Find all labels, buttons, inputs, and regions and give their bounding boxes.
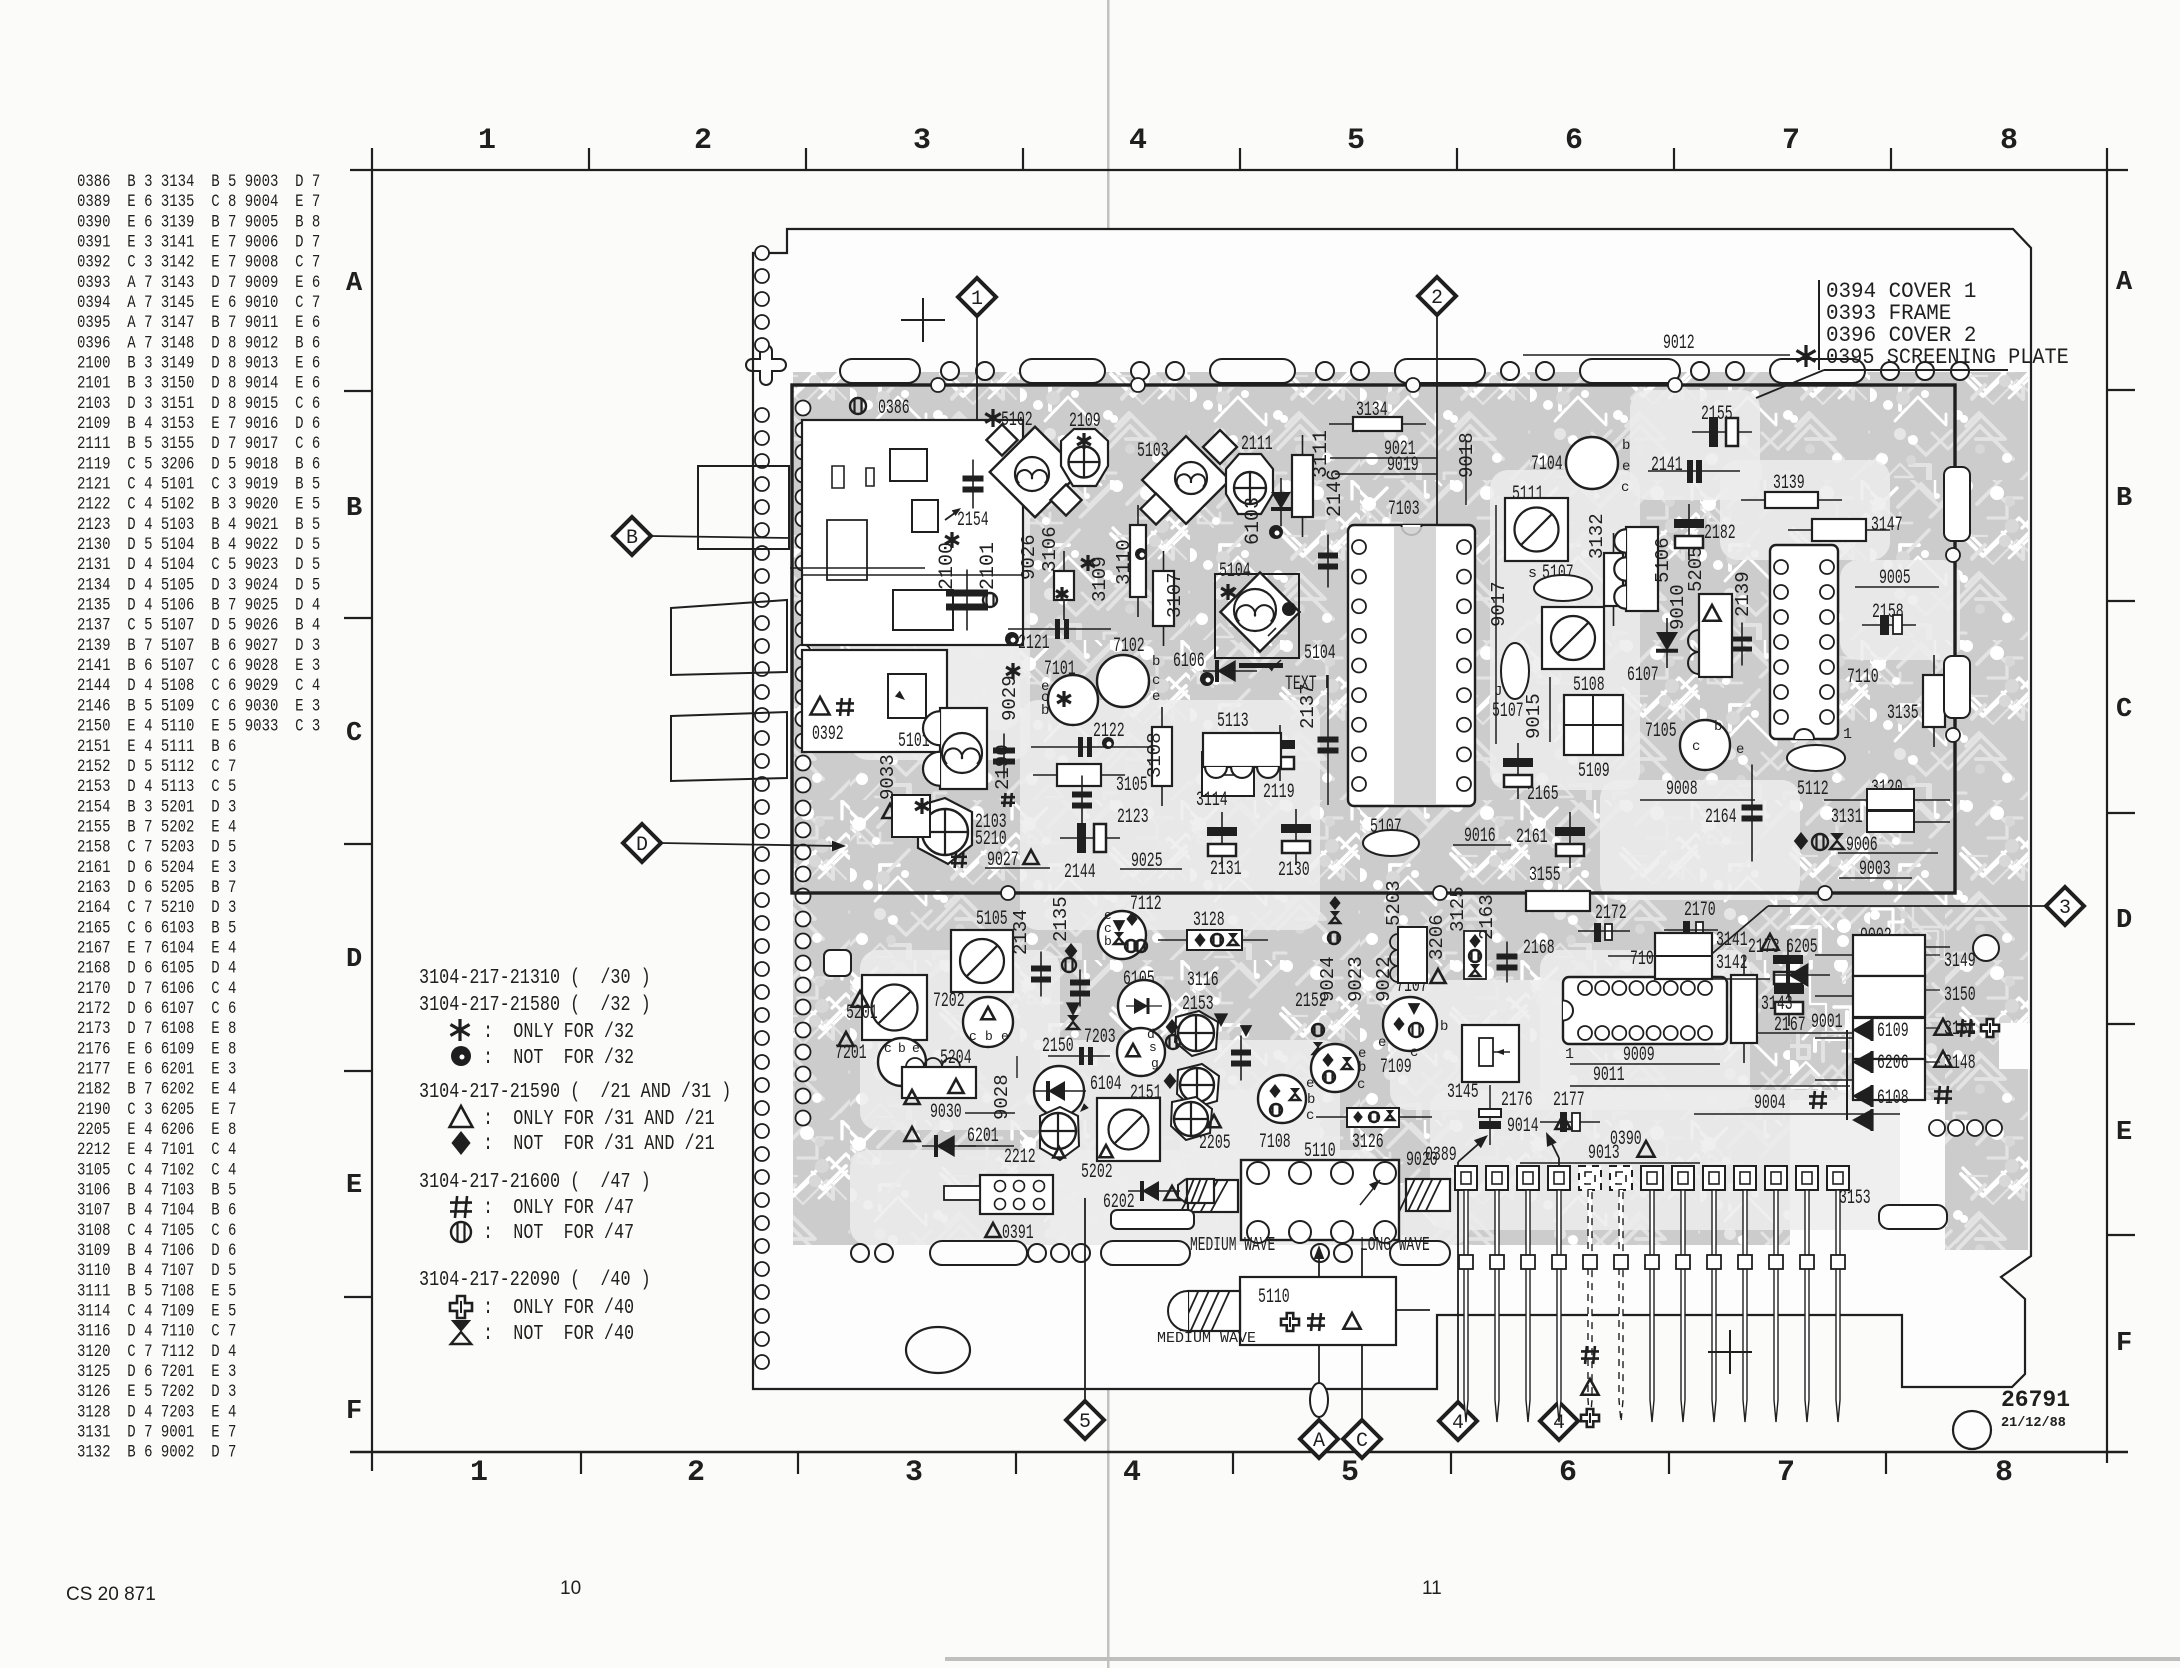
connector tab 2 [671, 600, 787, 675]
svg-text:3142: 3142 [1716, 953, 1748, 975]
svg-text:0395 SCREENING PLATE: 0395 SCREENING PLATE [1826, 345, 2069, 370]
svg-text:8: 8 [2000, 124, 2018, 158]
leader 5 [1084, 1198, 1086, 1401]
svg-text:: NOT FOR /40: : NOT FOR /40 [483, 1321, 634, 1345]
resistor 3107 [1163, 551, 1165, 646]
svg-text:2141: 2141 [1651, 455, 1683, 477]
hatch blocks [1406, 1179, 1450, 1211]
svg-text:3120 C 7 7112 D 4: 3120 C 7 7112 D 4 [77, 1342, 236, 1362]
svg-text:3105 C 4 7102 C 4: 3105 C 4 7102 C 4 [77, 1160, 236, 1180]
svg-text:3109: 3109 [1089, 556, 1111, 602]
svg-text:9018: 9018 [1456, 432, 1478, 478]
svg-text:3109 B 4 7106 D 6: 3109 B 4 7106 D 6 [77, 1241, 236, 1261]
svg-text:3116 D 4 7110 C 7: 3116 D 4 7110 C 7 [77, 1321, 236, 1341]
svg-text:1: 1 [478, 124, 496, 158]
svg-text:F: F [2116, 1329, 2132, 1359]
capacitor 2121 [1005, 632, 1019, 646]
svg-text:e: e [1622, 459, 1630, 475]
svg-text:2101: 2101 [977, 542, 1000, 590]
svg-text:2176: 2176 [1501, 1090, 1533, 1112]
svg-text:F: F [346, 1397, 362, 1427]
IC 7110 [1770, 545, 1838, 739]
svg-text:2151 E 4 5111 B 6: 2151 E 4 5111 B 6 [77, 736, 236, 756]
svg-text:3132 B 6 9002 D 7: 3132 B 6 9002 D 7 [77, 1442, 236, 1462]
svg-text:9004: 9004 [1754, 1093, 1786, 1115]
coil assembly 5102 [991, 409, 994, 427]
svg-text:D: D [2116, 906, 2132, 936]
svg-text:A: A [2116, 268, 2133, 298]
transistor 7109 [1311, 1044, 1359, 1092]
svg-text:3141: 3141 [1716, 930, 1748, 952]
svg-text:2109 B 4 3153 E 7 9016 D 6: 2109 B 4 3153 E 7 9016 D 6 [77, 414, 320, 434]
svg-text:0391: 0391 [1002, 1223, 1034, 1245]
variant legend [419, 965, 731, 1345]
svg-text:3104-217-22090 ( /40 ): 3104-217-22090 ( /40 ) [419, 1267, 651, 1291]
svg-text:: NOT FOR /31 AND /21: : NOT FOR /31 AND /21 [483, 1131, 715, 1155]
svg-text:3110: 3110 [1113, 539, 1135, 585]
bottom edge slots and holes [851, 1244, 869, 1262]
transistor second cbe [963, 997, 1013, 1047]
svg-text:b: b [1714, 719, 1722, 735]
svg-text:c: c [884, 1041, 892, 1056]
svg-text:6103: 6103 [1242, 497, 1265, 545]
svg-text:2119: 2119 [1263, 782, 1295, 804]
svg-text:5202: 5202 [1081, 1162, 1113, 1184]
svg-text:2152 D 5 5112 C 7: 2152 D 5 5112 C 7 [77, 757, 236, 777]
svg-text:5105: 5105 [976, 909, 1008, 931]
svg-text:3105: 3105 [1116, 775, 1148, 797]
svg-text:7105: 7105 [1645, 721, 1677, 743]
svg-text:2146: 2146 [1324, 469, 1347, 517]
svg-text:2: 2 [1431, 287, 1443, 310]
svg-text:6201: 6201 [967, 1126, 999, 1148]
svg-text:3108: 3108 [1144, 732, 1166, 778]
svg-text:b: b [1358, 1060, 1366, 1076]
svg-text:3149: 3149 [1944, 951, 1976, 973]
capacitor near 5110 [1240, 1036, 1242, 1081]
svg-text:2100 B 3 3149 D 8 9013 E 6: 2100 B 3 3149 D 8 9013 E 6 [77, 353, 320, 373]
svg-text:2123: 2123 [1117, 807, 1149, 829]
svg-text:3114: 3114 [1196, 790, 1228, 812]
svg-text:5112: 5112 [1797, 779, 1829, 801]
svg-text:3155: 3155 [1529, 865, 1561, 887]
svg-text:2122 C 4 5102 B 3 9020 E 5: 2122 C 4 5102 B 3 9020 E 5 [77, 494, 320, 514]
rounded rect bottom [1111, 1210, 1194, 1229]
svg-text:0395 A 7 3147 B 7 9011 E 6: 0395 A 7 3147 B 7 9011 E 6 [77, 313, 320, 333]
quad 5109 [1564, 695, 1623, 755]
svg-text:b: b [1440, 1019, 1448, 1035]
svg-text:2144: 2144 [1064, 862, 1096, 884]
svg-text:5107: 5107 [1492, 701, 1524, 723]
svg-text:2164: 2164 [1705, 807, 1737, 829]
svg-text:9015: 9015 [1523, 693, 1545, 739]
svg-text:7112: 7112 [1130, 894, 1162, 916]
parts cross-reference list [77, 172, 320, 1463]
svg-text:3147: 3147 [1871, 515, 1903, 537]
svg-text:b: b [1104, 934, 1112, 949]
svg-text:b: b [1041, 703, 1049, 719]
svg-text:c: c [1152, 673, 1160, 689]
diode 6205 [1761, 934, 1778, 950]
leader C [1361, 1248, 1363, 1420]
svg-text:B: B [2116, 484, 2132, 514]
svg-text:5210: 5210 [975, 829, 1007, 851]
svg-text:7104: 7104 [1531, 454, 1563, 476]
resistor 3108 [1161, 707, 1163, 806]
svg-text:b: b [1307, 1092, 1315, 1108]
svg-text:2101 B 3 3150 D 8 9014 E 6: 2101 B 3 3150 D 8 9014 E 6 [77, 373, 320, 393]
svg-text:b: b [1622, 438, 1630, 454]
svg-text:3104-217-21600 ( /47 ): 3104-217-21600 ( /47 ) [419, 1169, 651, 1193]
connector housing 0386 [802, 420, 1023, 645]
symbols below pins [1581, 1346, 1599, 1364]
left mounting hole column inner [796, 401, 811, 416]
svg-text:e: e [1152, 689, 1160, 705]
svg-text:2165 C 6 6103 B 5: 2165 C 6 6103 B 5 [77, 918, 236, 938]
ref diamond 3 [2046, 887, 2084, 925]
svg-text:2182 B 7 6202 E 4: 2182 B 7 6202 E 4 [77, 1079, 236, 1099]
leader D [661, 843, 838, 846]
svg-text:2131: 2131 [1210, 859, 1242, 881]
svg-text:2182: 2182 [1704, 523, 1736, 545]
svg-text:2146 B 5 5109 C 6 9030 E 3: 2146 B 5 5109 C 6 9030 E 3 [77, 696, 320, 716]
top edge slots and holes [840, 359, 920, 383]
resistor 3111 [1302, 435, 1304, 537]
svg-text:3131 D 7 9001 E 7: 3131 D 7 9001 E 7 [77, 1422, 236, 1442]
svg-text:7202: 7202 [933, 991, 965, 1013]
svg-text:2130: 2130 [1278, 860, 1310, 882]
svg-text:6106: 6106 [1173, 651, 1205, 673]
svg-text:2177 E 6 6201 E 3: 2177 E 6 6201 E 3 [77, 1059, 236, 1079]
svg-text:MEDIUM WAVE: MEDIUM WAVE [1157, 1330, 1256, 1347]
svg-text:0390: 0390 [1610, 1129, 1642, 1151]
svg-text:3128 D 4 7203 E 4: 3128 D 4 7203 E 4 [77, 1402, 236, 1422]
svg-text:9017: 9017 [1488, 581, 1510, 627]
svg-text:11: 11 [1422, 1578, 1442, 1599]
resistors 3141 3142 [1655, 933, 1712, 979]
svg-text:c: c [969, 1029, 977, 1044]
svg-text:9029: 9029 [999, 675, 1021, 721]
transistor 7108 [1258, 1075, 1306, 1123]
svg-text:9008: 9008 [1666, 779, 1698, 801]
leader 4b [1558, 1158, 1560, 1402]
svg-text:5104: 5104 [1304, 643, 1336, 665]
svg-text:2154: 2154 [957, 510, 989, 532]
svg-text:: ONLY FOR /31 AND /21: : ONLY FOR /31 AND /21 [483, 1106, 715, 1130]
svg-text:5: 5 [1341, 1456, 1359, 1490]
svg-text:e: e [1001, 1029, 1009, 1044]
cover legend [1818, 280, 1820, 370]
wire stub B [790, 567, 925, 569]
oval 5107 J [1501, 643, 1529, 699]
svg-text:3104-217-21590 ( /21 AND /31: 3104-217-21590 ( /21 AND /31 ) [419, 1079, 731, 1103]
ref diamond A [1300, 1420, 1338, 1458]
svg-text:0392: 0392 [812, 724, 844, 746]
capacitor 2165 [1517, 743, 1519, 799]
svg-text:B: B [626, 527, 638, 550]
svg-text:A: A [1313, 1430, 1325, 1453]
label 0391 [985, 1223, 1000, 1237]
svg-text:0392 C 3 3142 E 7 9008 C 7: 0392 C 3 3142 E 7 9008 C 7 [77, 252, 320, 272]
circle bottom right [1953, 1411, 1991, 1449]
ref diamond C [1343, 1420, 1381, 1458]
svg-text:: ONLY FOR /40: : ONLY FOR /40 [483, 1295, 634, 1319]
svg-text:2130 D 5 5104 B 4 9022 D 5: 2130 D 5 5104 B 4 9022 D 5 [77, 535, 320, 555]
svg-text:6108: 6108 [1877, 1088, 1909, 1110]
leader B [651, 536, 790, 538]
svg-text:2170: 2170 [1684, 900, 1716, 922]
svg-text:3145: 3145 [1447, 1082, 1479, 1104]
svg-text:3110 B 4 7107 D 5: 3110 B 4 7107 D 5 [77, 1261, 236, 1281]
svg-text:c: c [1357, 1077, 1365, 1093]
svg-text:s: s [1528, 565, 1537, 582]
diode 6107 [1656, 632, 1678, 651]
svg-text:2121: 2121 [1018, 633, 1050, 655]
svg-text:9014: 9014 [1507, 1116, 1539, 1138]
ref diamond 4 right [1540, 1402, 1578, 1440]
svg-text:9011: 9011 [1593, 1065, 1625, 1087]
component 3145 [1462, 1025, 1519, 1082]
leader 1 [976, 316, 978, 432]
svg-text:MEDIUM WAVE: MEDIUM WAVE [1190, 1234, 1275, 1256]
svg-text:5: 5 [1347, 124, 1365, 158]
left mounting hole column outer [755, 246, 769, 260]
svg-text:2123 D 4 5103 B 4 9021 B 5: 2123 D 4 5103 B 4 9021 B 5 [77, 515, 320, 535]
svg-text:9012: 9012 [1663, 333, 1695, 355]
svg-text:0390 E 6 3139 B 7 9005 B 8: 0390 E 6 3139 B 7 9005 B 8 [77, 212, 320, 232]
svg-text:7109: 7109 [1380, 1057, 1412, 1079]
svg-text:3108 C 4 7105 C 6: 3108 C 4 7105 C 6 [77, 1220, 236, 1240]
svg-text:3126: 3126 [1352, 1132, 1384, 1154]
svg-text:3106: 3106 [1039, 526, 1061, 572]
svg-text:5113: 5113 [1217, 711, 1249, 733]
svg-text:J: J [1494, 684, 1502, 700]
screening plate frame 0393 [792, 385, 1955, 893]
svg-text:5106: 5106 [1652, 537, 1674, 583]
resistor stack 3149-3148 [1853, 935, 1925, 976]
svg-text:2176 E 6 6109 E 8: 2176 E 6 6109 E 8 [77, 1039, 236, 1059]
svg-text:c: c [1306, 1108, 1314, 1124]
component 3114 [1202, 752, 1254, 796]
svg-text:2212: 2212 [1004, 1147, 1036, 1169]
svg-text:2165: 2165 [1527, 784, 1559, 806]
svg-text:c: c [1692, 739, 1700, 755]
svg-text:: ONLY FOR /47: : ONLY FOR /47 [483, 1195, 634, 1219]
svg-text:4: 4 [1129, 124, 1147, 158]
svg-text:2163: 2163 [1476, 894, 1498, 940]
svg-text:2163 D 6 5205 B 7: 2163 D 6 5205 B 7 [77, 878, 236, 898]
svg-text:3206: 3206 [1426, 914, 1448, 960]
trimmer circles mid [1175, 1011, 1218, 1056]
svg-text:3114 C 4 7109 E 5: 3114 C 4 7109 E 5 [77, 1301, 236, 1321]
cross mark bottom right [1729, 1330, 1731, 1374]
svg-text:9010: 9010 [1667, 584, 1689, 630]
small pad boxes left [893, 590, 953, 630]
svg-text:D: D [636, 834, 648, 857]
svg-text:2144 D 4 5108 C 6 9029 C 4: 2144 D 4 5108 C 6 9029 C 4 [77, 676, 320, 696]
trimmer below 6104 [1040, 1107, 1079, 1160]
diode 6201 [904, 1127, 919, 1141]
cross cutout hole [746, 345, 786, 385]
svg-text:2168: 2168 [1523, 938, 1555, 960]
svg-text:7: 7 [1777, 1456, 1795, 1490]
svg-text:4: 4 [1123, 1456, 1141, 1490]
svg-text:6107: 6107 [1627, 665, 1659, 687]
svg-text:2205 E 4 6206 E 8: 2205 E 4 6206 E 8 [77, 1120, 236, 1140]
rod 5110 medium wave [1240, 1277, 1396, 1345]
svg-text:2170 D 7 6106 C 4: 2170 D 7 6106 C 4 [77, 978, 236, 998]
svg-text:2: 2 [687, 1456, 705, 1490]
svg-text:b: b [898, 1041, 906, 1056]
svg-text:4: 4 [1452, 1412, 1464, 1435]
ruler frame [350, 169, 2128, 171]
svg-text:2103 D 3 3151 D 8 9015 C 6: 2103 D 3 3151 D 8 9015 C 6 [77, 394, 320, 414]
svg-text:2161: 2161 [1516, 827, 1548, 849]
svg-text:2135: 2135 [1050, 896, 1072, 942]
label 5201 [851, 991, 868, 1007]
antenna oval [1310, 1383, 1328, 1417]
svg-text:s: s [1149, 1040, 1157, 1055]
svg-text:6109: 6109 [1877, 1021, 1909, 1043]
svg-text:3107: 3107 [1164, 572, 1186, 618]
svg-text:2135 D 4 5106 B 7 9025 D 4: 2135 D 4 5106 B 7 9025 D 4 [77, 595, 320, 615]
svg-text:2173 D 7 6108 E 8: 2173 D 7 6108 E 8 [77, 1019, 236, 1039]
svg-text:: NOT FOR /32: : NOT FOR /32 [483, 1045, 634, 1069]
svg-text:3106 B 4 7103 B 5: 3106 B 4 7103 B 5 [77, 1180, 236, 1200]
svg-text:3: 3 [913, 124, 931, 158]
ref diamond B [613, 517, 651, 555]
svg-text:2158 C 7 5203 D 5: 2158 C 7 5203 D 5 [77, 837, 236, 857]
svg-text:TEXT: TEXT [1285, 674, 1317, 696]
svg-text:1: 1 [1843, 726, 1852, 743]
svg-text:7: 7 [1782, 124, 1800, 158]
svg-text:6: 6 [1559, 1456, 1577, 1490]
svg-text:2150 E 4 5110 E 5 9033 C 3: 2150 E 4 5110 E 5 9033 C 3 [77, 716, 320, 736]
svg-text:2141 B 6 5107 C 6 9028 E 3: 2141 B 6 5107 C 6 9028 E 3 [77, 656, 320, 676]
svg-text:0394 COVER 1: 0394 COVER 1 [1826, 280, 1976, 305]
svg-text:2177: 2177 [1553, 1090, 1585, 1112]
svg-text:A: A [346, 269, 363, 299]
svg-text:7203: 7203 [1084, 1027, 1116, 1049]
svg-text:5203: 5203 [1383, 880, 1405, 926]
ref diamond 1 [958, 278, 996, 316]
symbols 9006 [1794, 832, 1808, 850]
svg-text:2190 C 3 6205 E 7: 2190 C 3 6205 E 7 [77, 1099, 236, 1119]
svg-text:2212 E 4 7101 C 4: 2212 E 4 7101 C 4 [77, 1140, 236, 1160]
svg-text:2161 D 6 5204 E 3: 2161 D 6 5204 E 3 [77, 857, 236, 877]
svg-text:e: e [1306, 1076, 1314, 1092]
svg-text:2151: 2151 [1130, 1083, 1162, 1105]
oval bottom left [906, 1327, 970, 1373]
svg-text:3125: 3125 [1447, 886, 1469, 932]
svg-text:5108: 5108 [1573, 675, 1605, 697]
small square [824, 950, 851, 976]
svg-text:26791: 26791 [2001, 1387, 2070, 1413]
hole connector block [980, 1175, 1053, 1214]
svg-text:7103: 7103 [1388, 499, 1420, 521]
svg-text:9023: 9023 [1345, 956, 1367, 1002]
ref diamond D [623, 824, 661, 862]
connector pins [1455, 1166, 1477, 1190]
trimmer 5108 [1542, 607, 1604, 669]
svg-text:0391 E 3 3141 E 7 9006 D 7: 0391 E 3 3141 E 7 9006 D 7 [77, 232, 320, 252]
svg-text:5109: 5109 [1578, 761, 1610, 783]
svg-text:E: E [2116, 1118, 2132, 1148]
svg-text:3135: 3135 [1887, 703, 1919, 725]
block 3126 [1347, 1108, 1399, 1127]
IC 7103 [1348, 525, 1475, 806]
svg-text:LONG WAVE: LONG WAVE [1360, 1234, 1430, 1256]
leader 2 [1436, 315, 1438, 688]
svg-text:CS 20 871: CS 20 871 [66, 1584, 156, 1605]
grid row letters right [2107, 389, 2135, 391]
svg-text:5104: 5104 [1219, 561, 1251, 583]
svg-text:1: 1 [470, 1456, 488, 1490]
svg-text:2134: 2134 [1010, 909, 1032, 955]
svg-text:B: B [346, 494, 362, 524]
svg-text:5201: 5201 [846, 1003, 878, 1025]
svg-text:2168 D 6 6105 D 4: 2168 D 6 6105 D 4 [77, 958, 236, 978]
resistor 3105 [1033, 774, 1125, 776]
svg-text:9022: 9022 [1373, 956, 1395, 1002]
svg-text:e: e [1736, 742, 1744, 758]
svg-text:2: 2 [694, 124, 712, 158]
coil 5106 [1626, 527, 1658, 611]
svg-text:3125 D 6 7201 E 3: 3125 D 6 7201 E 3 [77, 1362, 236, 1382]
ref diamond 5 [1066, 1401, 1104, 1439]
svg-text:9033: 9033 [877, 754, 899, 800]
PCB board outline [753, 229, 2031, 1389]
svg-text:C: C [346, 719, 362, 749]
svg-text:8: 8 [1995, 1456, 2013, 1490]
svg-text:b: b [1152, 654, 1160, 670]
svg-text:2155 B 7 5202 E 4: 2155 B 7 5202 E 4 [77, 817, 236, 837]
page crease [1107, 0, 1110, 1668]
svg-text:3116: 3116 [1187, 970, 1219, 992]
svg-text:2134 D 4 5105 D 3 9024 D 5: 2134 D 4 5105 D 3 9024 D 5 [77, 575, 320, 595]
svg-text:0389: 0389 [1425, 1145, 1457, 1167]
svg-text:: ONLY FOR /32: : ONLY FOR /32 [483, 1019, 634, 1043]
svg-text:2167 E 7 6104 E 4: 2167 E 7 6104 E 4 [77, 938, 236, 958]
svg-text:2150: 2150 [1042, 1036, 1074, 1058]
svg-text:C: C [2116, 695, 2132, 725]
svg-text:2111 B 5 3155 D 7 9017 C 6: 2111 B 5 3155 D 7 9017 C 6 [77, 434, 320, 454]
svg-text:3: 3 [2059, 897, 2071, 920]
svg-text:2137 C 5 5107 D 5 9026 B 4: 2137 C 5 5107 D 5 9026 B 4 [77, 615, 320, 635]
svg-text:0386 B 3 3134 B 5 9003 D 7: 0386 B 3 3134 B 5 9003 D 7 [77, 172, 320, 192]
svg-text:2121 C 4 5101 C 3 9019 B 5: 2121 C 4 5101 C 3 9019 B 5 [77, 474, 320, 494]
diode 6103 [1271, 492, 1291, 509]
svg-text:9028: 9028 [991, 1074, 1013, 1120]
svg-text:2119 C 5 3206 D 5 9018 B 6: 2119 C 5 3206 D 5 9018 B 6 [77, 454, 320, 474]
trimmer 7203 square [1097, 1098, 1160, 1161]
light zones [850, 480, 1030, 760]
resistor 3110 [1137, 505, 1139, 617]
svg-text:3153: 3153 [1839, 1188, 1871, 1210]
svg-text:2164 C 7 5210 D 3: 2164 C 7 5210 D 3 [77, 898, 236, 918]
four small circles right band [1929, 1120, 1945, 1136]
svg-text:0386: 0386 [878, 398, 910, 420]
svg-text:5110: 5110 [1258, 1287, 1290, 1309]
svg-text:6206: 6206 [1877, 1053, 1909, 1075]
svg-text:9030: 9030 [930, 1102, 962, 1124]
svg-text:9024: 9024 [1317, 956, 1339, 1002]
svg-text:2172: 2172 [1595, 903, 1627, 925]
leader 3 [1768, 905, 2046, 907]
svg-text:2100: 2100 [936, 542, 959, 590]
svg-text:0393 A 7 3143 D 7 9009 E 6: 0393 A 7 3143 D 7 9009 E 6 [77, 273, 320, 293]
svg-text:2111: 2111 [1241, 434, 1273, 456]
